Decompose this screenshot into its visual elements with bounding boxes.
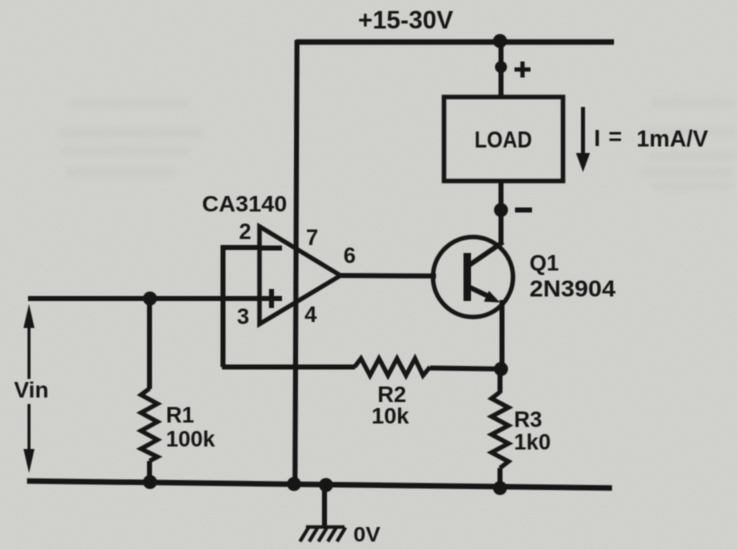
- svg-text:+15-30V: +15-30V: [358, 7, 454, 35]
- node R3 bottom junction: [493, 481, 507, 495]
- node input junction: [143, 292, 157, 306]
- svg-text:LOAD: LOAD: [475, 127, 533, 153]
- wire load bottom lead: [499, 181, 504, 245]
- svg-text:7: 7: [306, 225, 318, 250]
- node load plus terminal: [495, 61, 507, 73]
- svg-text:4: 4: [305, 302, 318, 327]
- wire feedback horizontal to R2: [222, 365, 355, 370]
- node ground junction: [319, 478, 333, 492]
- svg-text:100k: 100k: [166, 427, 216, 452]
- node load minus terminal: [494, 203, 508, 217]
- svg-text:2: 2: [239, 219, 251, 244]
- transistor Q1 circle: [433, 237, 513, 317]
- node supply bottom junction: [287, 477, 301, 491]
- svg-text:R1: R1: [166, 403, 194, 428]
- wire pin2 horizontal: [223, 245, 261, 250]
- svg-text:2N3904: 2N3904: [530, 276, 616, 302]
- wire R3 bottom: [498, 468, 503, 488]
- op-amp U1 CA3140 triangle: [260, 227, 341, 325]
- wire left supply drop (pin7/pin4 rail): [295, 40, 297, 486]
- svg-text:Vin: Vin: [14, 378, 49, 403]
- wire emitter node to R3: [498, 369, 503, 393]
- svg-text:R3: R3: [514, 407, 542, 432]
- node plus input sign: [261, 289, 282, 308]
- node R1 bottom junction: [143, 475, 157, 489]
- wire emitter vertical: [500, 300, 505, 369]
- current arrow I: [581, 107, 585, 158]
- wire feedback vertical: [221, 245, 226, 367]
- node minus input sign: [259, 246, 282, 251]
- resistor R1: [141, 389, 158, 462]
- node plus sign at load top: [515, 62, 531, 78]
- ground stem wire: [322, 485, 327, 527]
- node junction top rail to load: [493, 34, 507, 48]
- svg-text:CA3140: CA3140: [202, 192, 287, 217]
- load box LOAD: [444, 97, 563, 181]
- wire pin3 input: [28, 296, 261, 301]
- wire output pin6 to base: [339, 273, 436, 279]
- ground symbol: [300, 527, 346, 542]
- svg-text:0V: 0V: [353, 524, 380, 547]
- wire R2 to emitter node: [430, 368, 501, 369]
- svg-text:3: 3: [237, 304, 249, 329]
- resistor R3: [492, 392, 509, 468]
- svg-text:1k0: 1k0: [514, 430, 551, 455]
- transistor Q1 emitter diagonal with arrow: [469, 287, 490, 297]
- svg-text:I: I: [594, 125, 600, 151]
- node emitter junction: [494, 362, 508, 376]
- wire R1 bottom lead: [147, 461, 152, 482]
- wire R1 top lead: [147, 298, 152, 389]
- node Vin arrow top: [24, 304, 35, 328]
- svg-text:Q1: Q1: [530, 251, 559, 276]
- svg-text:1mA/V: 1mA/V: [637, 126, 709, 152]
- transistor Q1 collector diagonal: [468, 242, 503, 266]
- wire load top lead: [499, 41, 504, 97]
- node Vin arrow bottom: [28, 404, 31, 452]
- transistor Q1 base bar: [464, 253, 472, 301]
- svg-text:6: 6: [344, 243, 356, 268]
- node minus sign at load bottom: [515, 208, 532, 213]
- svg-text:=: =: [609, 124, 622, 150]
- wire bottom rail: [27, 481, 612, 488]
- wire top supply rail: [296, 39, 614, 45]
- svg-text:10k: 10k: [372, 404, 410, 429]
- resistor R2: [355, 359, 431, 376]
